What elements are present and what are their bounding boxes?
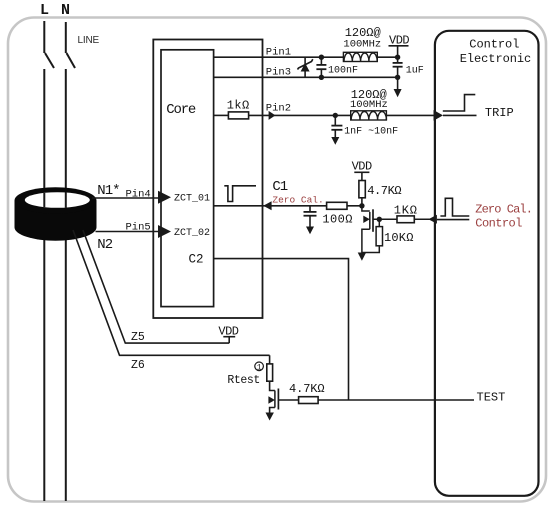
svg-text:Pin3: Pin3 xyxy=(266,66,291,78)
svg-text:Zero Cal.: Zero Cal. xyxy=(475,202,532,216)
svg-text:TRIP: TRIP xyxy=(485,106,514,120)
svg-text:1kΩ: 1kΩ xyxy=(227,99,250,113)
svg-text:1KΩ: 1KΩ xyxy=(394,204,418,218)
svg-text:Pin5: Pin5 xyxy=(126,222,151,234)
svg-text:VDD: VDD xyxy=(389,33,409,47)
svg-text:ZCT_01: ZCT_01 xyxy=(174,194,210,205)
svg-text:N: N xyxy=(61,2,70,19)
svg-text:Control: Control xyxy=(469,37,519,51)
svg-text:Pin1: Pin1 xyxy=(266,46,291,58)
svg-text:VDD: VDD xyxy=(218,325,238,339)
svg-text:N1*: N1* xyxy=(97,183,119,199)
svg-text:4.7KΩ: 4.7KΩ xyxy=(367,184,401,198)
svg-text:Control: Control xyxy=(475,217,522,231)
svg-text:4.7KΩ: 4.7KΩ xyxy=(289,382,325,396)
svg-text:100MHz: 100MHz xyxy=(343,38,381,50)
svg-text:1: 1 xyxy=(257,363,262,372)
svg-text:ZCT_02: ZCT_02 xyxy=(174,228,210,239)
svg-text:Rtest: Rtest xyxy=(227,374,260,387)
svg-text:Zero Cal.: Zero Cal. xyxy=(272,194,323,205)
svg-text:100Ω: 100Ω xyxy=(322,213,352,227)
svg-text:1uF: 1uF xyxy=(406,65,424,76)
svg-text:Z6: Z6 xyxy=(131,359,145,372)
svg-text:Electronic: Electronic xyxy=(460,52,532,66)
svg-text:100nF: 100nF xyxy=(328,65,358,76)
svg-text:C1: C1 xyxy=(272,179,287,195)
svg-text:N2: N2 xyxy=(97,237,112,253)
svg-text:1nF ~10nF: 1nF ~10nF xyxy=(344,127,398,138)
svg-text:LINE: LINE xyxy=(78,35,100,46)
svg-text:Core: Core xyxy=(166,102,196,118)
svg-text:VDD: VDD xyxy=(352,160,372,174)
svg-text:TEST: TEST xyxy=(477,391,506,405)
svg-text:L: L xyxy=(40,2,49,19)
svg-text:Pin2: Pin2 xyxy=(266,102,291,114)
svg-text:Z5: Z5 xyxy=(131,331,145,344)
svg-text:C2: C2 xyxy=(189,253,204,267)
svg-text:100MHz: 100MHz xyxy=(350,99,388,111)
svg-text:Pin4: Pin4 xyxy=(126,189,151,201)
svg-text:10KΩ: 10KΩ xyxy=(384,231,414,245)
